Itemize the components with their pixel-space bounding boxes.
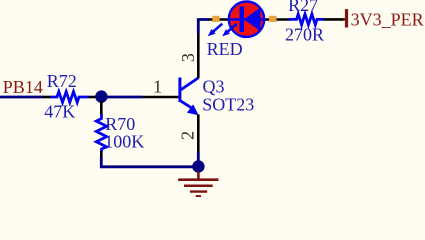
wire junction to Q3 base pin: [101, 96, 143, 99]
emission arrow 1: [211, 24, 223, 34]
pin highlight left (orange): [212, 16, 219, 22]
svg-text:2: 2: [178, 131, 198, 140]
svg-text:R72: R72: [47, 71, 77, 91]
pin 1 of Q3: [143, 96, 179, 99]
svg-text:R27: R27: [288, 0, 318, 15]
ground: [178, 172, 218, 197]
svg-text:100K: 100K: [104, 131, 144, 151]
svg-text:SOT23: SOT23: [202, 95, 254, 115]
resistor R27: [289, 14, 344, 25]
LED left pin: [208, 18, 230, 21]
power port 3V3_PER: [343, 9, 424, 29]
resistor R72: [43, 92, 97, 103]
LED (RED): [208, 2, 264, 37]
svg-text:PB14: PB14: [3, 77, 43, 97]
LED right pin: [263, 18, 291, 21]
emitter diagonal: [180, 101, 192, 109]
wire R70 to emitter node: [101, 157, 198, 167]
transistor Q3: [178, 78, 198, 116]
svg-text:1: 1: [153, 76, 162, 96]
pin 3 of Q3 (collector): [197, 33, 200, 78]
svg-text:270R: 270R: [285, 25, 324, 45]
junction node emitter/ground: [192, 160, 204, 172]
svg-text:3V3_PER: 3V3_PER: [351, 9, 424, 29]
wire emitter to ground node: [197, 152, 200, 162]
junction node base: [95, 90, 107, 102]
wire PB14 to R72: [0, 96, 44, 99]
base bar: [178, 78, 181, 103]
pin highlight right (orange): [269, 16, 277, 22]
resistor R70: [96, 101, 106, 158]
emission arrow 2: [225, 24, 237, 34]
pin 2 of Q3 (emitter): [197, 115, 200, 153]
wire collector to LED: [198, 20, 209, 34]
collector diagonal: [180, 78, 198, 90]
emitter arrowhead: [187, 104, 199, 115]
svg-text:RED: RED: [207, 39, 243, 59]
svg-text:47K: 47K: [44, 101, 75, 121]
svg-text:3: 3: [178, 53, 198, 62]
